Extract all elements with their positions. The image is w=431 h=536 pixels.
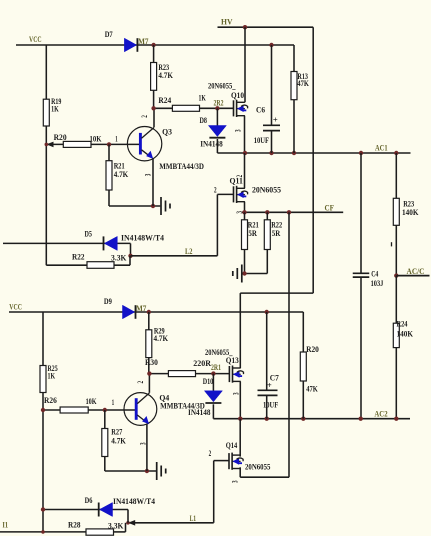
svg-text:47K: 47K [306, 384, 318, 393]
svg-text:1K: 1K [199, 94, 207, 103]
svg-text:R24: R24 [158, 96, 171, 105]
svg-text:2: 2 [136, 381, 145, 384]
svg-text:10UF: 10UF [254, 136, 269, 145]
svg-text:D6: D6 [85, 496, 93, 505]
svg-text:L1: L1 [190, 514, 197, 523]
svg-text:R21: R21 [248, 221, 259, 230]
svg-text:220R: 220R [193, 359, 211, 368]
svg-text:5R: 5R [272, 229, 281, 238]
svg-text:CF: CF [325, 203, 335, 212]
svg-text:L2: L2 [185, 247, 193, 256]
svg-text:5R: 5R [248, 229, 257, 238]
svg-text:1: 1 [112, 398, 114, 407]
svg-text:IN4148W/T4: IN4148W/T4 [121, 233, 164, 242]
svg-text:R26: R26 [44, 396, 57, 405]
svg-text:10K: 10K [90, 134, 103, 143]
svg-text:1K: 1K [48, 371, 56, 380]
svg-text:2R1: 2R1 [211, 363, 221, 372]
svg-text:Q11: Q11 [230, 177, 243, 186]
svg-text:20N6055: 20N6055 [245, 463, 270, 472]
svg-text:Q13: Q13 [226, 356, 239, 365]
svg-text:R22: R22 [271, 221, 282, 230]
svg-text:R20: R20 [54, 133, 67, 142]
svg-text:R30: R30 [145, 358, 158, 367]
svg-text:Q10: Q10 [231, 91, 244, 100]
svg-text:2: 2 [140, 115, 149, 118]
svg-text:R23: R23 [403, 199, 414, 208]
svg-text:AC1: AC1 [375, 144, 388, 153]
svg-text:3.3K: 3.3K [108, 522, 124, 531]
svg-text:4.7K: 4.7K [158, 71, 173, 80]
svg-text:D10: D10 [203, 377, 214, 386]
svg-text:R20: R20 [306, 345, 319, 354]
svg-text:1K: 1K [51, 104, 59, 113]
svg-text:20N6055: 20N6055 [252, 185, 281, 194]
svg-text:D7: D7 [105, 30, 113, 39]
svg-text:D8: D8 [200, 116, 208, 125]
svg-text:Q14: Q14 [226, 441, 238, 450]
svg-text:140K: 140K [397, 330, 414, 339]
svg-text:C4: C4 [371, 269, 378, 278]
svg-text:IN4148: IN4148 [200, 140, 223, 149]
svg-text:140K: 140K [402, 208, 419, 217]
svg-text:Q3: Q3 [162, 127, 172, 136]
svg-text:3: 3 [139, 442, 148, 445]
svg-text:103J: 103J [371, 279, 384, 288]
svg-text:4.7K: 4.7K [114, 170, 129, 179]
svg-text:+: + [267, 381, 272, 390]
svg-text:1: 1 [115, 134, 117, 143]
svg-text:2R2: 2R2 [214, 98, 224, 107]
svg-text:10UF: 10UF [263, 400, 278, 409]
svg-text:4.7K: 4.7K [111, 436, 126, 445]
svg-text:4.7K: 4.7K [154, 334, 169, 343]
svg-text:2: 2 [209, 449, 212, 458]
svg-text:M7: M7 [138, 37, 148, 46]
svg-text:D9: D9 [104, 297, 112, 306]
svg-text:3: 3 [234, 129, 243, 132]
svg-text:D5: D5 [85, 229, 93, 238]
svg-text:R24: R24 [397, 319, 408, 328]
svg-text:47K: 47K [297, 79, 309, 88]
svg-text:3: 3 [232, 392, 241, 395]
svg-text:I1: I1 [2, 520, 8, 529]
svg-text:R28: R28 [68, 520, 81, 529]
svg-text:3.3K: 3.3K [111, 253, 127, 262]
svg-text:IN4148: IN4148 [188, 408, 211, 417]
svg-text:IN4148W/T4: IN4148W/T4 [113, 497, 155, 506]
svg-text:20N6055_: 20N6055_ [208, 82, 236, 91]
svg-text:VCC: VCC [9, 303, 22, 312]
svg-text:C6: C6 [256, 106, 265, 115]
svg-text:10K: 10K [86, 397, 98, 406]
svg-text:2: 2 [214, 185, 217, 194]
svg-text:M7: M7 [136, 304, 146, 313]
svg-text:3: 3 [230, 480, 239, 483]
svg-text:VCC: VCC [29, 35, 42, 44]
svg-text:MMBTA44/3D: MMBTA44/3D [159, 162, 204, 171]
svg-text:AC/C: AC/C [407, 267, 425, 276]
svg-text:HV: HV [221, 18, 233, 27]
svg-text:20N6055_: 20N6055_ [205, 348, 233, 357]
svg-text:R22: R22 [72, 253, 85, 262]
svg-text:3: 3 [144, 174, 153, 177]
svg-text:+: + [273, 116, 278, 125]
svg-text:AC2: AC2 [374, 409, 387, 418]
